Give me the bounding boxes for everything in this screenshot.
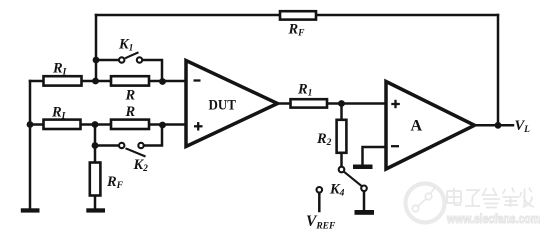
A plus sign	[391, 103, 400, 105]
resistor RI upper	[44, 76, 82, 85]
svg-text:www.elecfans.com: www.elecfans.com	[446, 212, 540, 226]
resistor RI lower	[44, 120, 81, 129]
wire R2 drop from node	[340, 104, 343, 121]
resistor RF left vertical	[90, 163, 101, 196]
junction dot lower row left node	[27, 121, 34, 128]
ground G3 at A minus input	[353, 165, 373, 170]
resistor RF top feedback	[280, 11, 316, 19]
junction dot upper row right node	[159, 78, 166, 85]
wire top feedback right segment	[316, 14, 498, 17]
switch K1 lever	[125, 52, 139, 58]
ground G4 under K4	[355, 210, 375, 215]
switch K2 lever	[126, 148, 146, 156]
svg-text:A: A	[411, 118, 423, 135]
wire K2 branch left	[95, 144, 120, 147]
watermark chinese text	[447, 188, 534, 208]
DUT plus sign	[194, 125, 203, 127]
junction dot VL node	[495, 122, 502, 129]
wire RF resistor to ground	[94, 195, 97, 209]
wire K1 branch left	[96, 59, 120, 62]
terminal VREF circle	[317, 187, 323, 193]
wire K4 lower contact to ground	[363, 191, 366, 210]
wire K2 branch right	[143, 125, 162, 146]
wire K2 drop from lower row	[94, 125, 97, 146]
wire upper row	[30, 80, 186, 83]
wire A minus input to ground	[363, 147, 387, 165]
svg-text:R: R	[125, 88, 136, 104]
DUT minus sign	[194, 79, 201, 81]
switch K1 contacts	[119, 57, 124, 62]
svg-text:R: R	[125, 104, 136, 120]
switch K2 contacts	[119, 143, 124, 148]
junction dot K2/RF tap	[92, 142, 99, 149]
wire RF drop to resistor	[94, 146, 97, 164]
wire VREF terminal stem	[318, 193, 321, 212]
svg-text:DUT: DUT	[209, 98, 237, 114]
wire A output to VL	[474, 124, 513, 127]
switch K4 lower contact	[361, 186, 367, 192]
resistor R upper	[111, 76, 149, 85]
resistor R lower	[111, 120, 149, 129]
watermark logo circle	[406, 184, 445, 223]
wire far-left vertical to ground	[29, 81, 32, 209]
wire DUT output to R1	[276, 102, 291, 105]
switch K4 upper contact	[339, 167, 345, 173]
wire R1 to A plus input	[327, 102, 386, 105]
wire K1 branch right	[142, 60, 163, 81]
junction dot lower row right node	[159, 122, 166, 129]
wire lower row	[30, 123, 186, 126]
A minus sign	[391, 145, 399, 147]
ground G2 under RF	[86, 208, 105, 212]
op-amp DUT	[186, 61, 278, 147]
op-amp A	[386, 82, 475, 170]
switch K4 lever	[344, 172, 362, 187]
wire R2 to switch K4	[340, 153, 343, 167]
wire left vertical from top to upper row	[95, 15, 98, 81]
junction dot upper row mid node	[92, 78, 99, 85]
resistor R1	[291, 99, 328, 107]
ground G1 far left	[21, 208, 40, 212]
junction dot R1/R2 node	[338, 100, 345, 107]
junction dot K1 tap on left vertical	[93, 57, 100, 64]
wire right vertical feedback to VL node	[497, 15, 500, 125]
junction dot lower row mid node	[92, 121, 99, 128]
wire top feedback left segment	[96, 14, 280, 17]
resistor R2 vertical	[337, 120, 347, 153]
